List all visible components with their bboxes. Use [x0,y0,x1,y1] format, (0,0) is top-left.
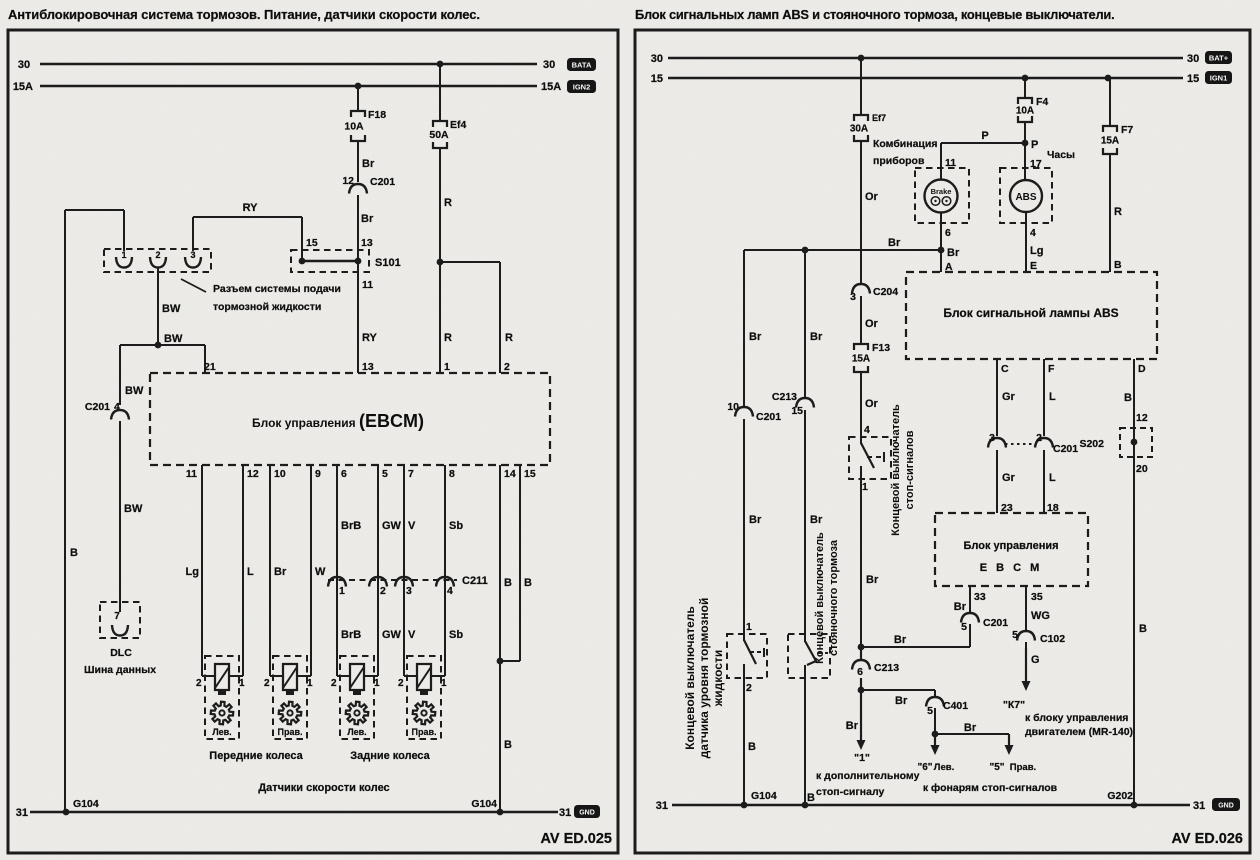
svg-text:C201: C201 [756,411,781,423]
svg-text:Br: Br [810,514,823,526]
svg-text:10: 10 [274,468,286,480]
svg-text:Задние колеса: Задние колеса [350,750,430,762]
svg-text:C: C [1001,363,1009,375]
svg-text:30: 30 [18,59,30,71]
svg-text:4: 4 [447,585,453,597]
svg-text:B: B [504,739,512,751]
svg-text:P: P [1031,139,1038,151]
svg-text:6: 6 [857,666,863,678]
svg-text:G104: G104 [751,790,777,802]
svg-text:7: 7 [114,611,120,622]
svg-text:"6": "6" [917,762,932,773]
svg-text:к фонарям стоп-сигналов: к фонарям стоп-сигналов [923,782,1058,794]
svg-text:"5": "5" [989,762,1004,773]
svg-text:C201: C201 [370,176,395,188]
svg-text:Br: Br [895,695,908,707]
svg-text:C201: C201 [1053,443,1078,455]
svg-text:V: V [408,520,416,532]
svg-text:B: B [807,792,815,804]
svg-text:C213: C213 [772,391,797,403]
svg-text:Блок сигнальной лампы ABS: Блок сигнальной лампы ABS [943,306,1118,320]
svg-text:12: 12 [247,468,259,480]
svg-text:L: L [1049,472,1056,484]
svg-text:WG: WG [1031,610,1050,622]
svg-text:BW: BW [164,333,183,345]
svg-text:F18: F18 [368,109,386,121]
svg-text:Антиблокировочная система торм: Антиблокировочная система тормозов. Пита… [8,7,480,22]
svg-text:Комбинация: Комбинация [873,138,937,150]
svg-text:C401: C401 [943,700,968,712]
svg-text:B: B [1114,259,1122,271]
svg-text:F13: F13 [872,342,890,354]
svg-text:GND: GND [579,810,595,817]
svg-text:двигателем (MR-140): двигателем (MR-140) [1025,726,1133,738]
svg-text:Концевой выключатель: Концевой выключатель [890,404,902,536]
svg-text:Br: Br [894,634,907,646]
svg-text:RY: RY [362,332,378,344]
svg-text:1: 1 [441,678,447,689]
svg-text:ABS: ABS [1015,192,1036,203]
svg-text:BAT+: BAT+ [1209,54,1229,63]
svg-text:RY: RY [243,202,259,214]
svg-text:BrB: BrB [341,629,361,641]
svg-text:30: 30 [543,59,555,71]
svg-text:13: 13 [361,237,373,249]
svg-text:Разъем системы подачи: Разъем системы подачи [213,283,341,295]
svg-text:B: B [524,577,532,589]
svg-text:BATA: BATA [572,61,592,70]
svg-text:4: 4 [864,424,870,436]
svg-text:L: L [1049,391,1056,403]
svg-text:31: 31 [1193,800,1205,812]
svg-text:15A: 15A [1101,136,1119,147]
svg-text:35: 35 [1031,591,1043,603]
svg-text:2: 2 [1036,432,1042,444]
svg-text:1: 1 [307,678,313,689]
svg-text:R: R [444,332,452,344]
svg-text:2: 2 [264,678,270,689]
svg-text:Br: Br [810,331,823,343]
svg-text:8: 8 [449,468,455,480]
svg-text:30A: 30A [850,124,868,135]
svg-text:Br: Br [964,722,977,734]
svg-text:5: 5 [382,468,388,480]
svg-text:GW: GW [382,520,402,532]
svg-text:стояночного тормоза: стояночного тормоза [828,539,840,656]
svg-text:C201: C201 [85,401,110,413]
svg-text:C211: C211 [462,575,488,587]
svg-text:приборов: приборов [873,155,925,167]
svg-text:Ef4: Ef4 [450,119,467,131]
svg-text:Ef7: Ef7 [872,113,886,123]
svg-text:15: 15 [306,237,318,249]
svg-text:F: F [1048,363,1055,375]
svg-text:Лев.: Лев. [347,727,366,737]
svg-text:Br: Br [749,514,762,526]
svg-text:датчика уровня тормозной: датчика уровня тормозной [697,598,711,759]
svg-text:S101: S101 [375,257,401,269]
svg-text:"1": "1" [854,752,870,764]
svg-text:B: B [1139,623,1147,635]
svg-text:20: 20 [1136,463,1148,475]
svg-text:D: D [1138,363,1146,375]
svg-text:Прав.: Прав. [411,727,436,737]
svg-text:15A: 15A [852,354,870,365]
svg-text:Блок сигнальных ламп ABS и сто: Блок сигнальных ламп ABS и стояночного т… [635,7,1114,22]
svg-text:F7: F7 [1121,124,1133,136]
svg-text:15: 15 [651,73,663,85]
svg-text:2: 2 [504,361,510,373]
svg-text:15A: 15A [13,81,33,93]
svg-text:Лев.: Лев. [212,727,231,737]
svg-text:1: 1 [444,361,450,373]
svg-text:6: 6 [945,227,951,239]
svg-text:жидкости: жидкости [711,650,725,707]
svg-text:R: R [444,197,452,209]
svg-text:1: 1 [239,678,245,689]
svg-text:21: 21 [204,361,216,373]
svg-text:Lg: Lg [1030,245,1043,257]
svg-text:Br: Br [846,720,859,732]
svg-text:Or: Or [865,191,879,203]
svg-text:Часы: Часы [1047,149,1075,161]
svg-text:R: R [1114,206,1122,218]
svg-text:Br: Br [954,601,967,613]
svg-text:5: 5 [961,621,967,633]
svg-text:3: 3 [989,432,995,444]
svg-text:Gr: Gr [1002,391,1016,403]
svg-text:P: P [981,130,988,142]
svg-text:31: 31 [559,807,571,819]
svg-text:Блок управления: Блок управления [963,540,1058,552]
svg-text:S202: S202 [1079,438,1104,450]
svg-text:B: B [748,741,756,753]
svg-text:3: 3 [850,291,856,303]
svg-text:2: 2 [398,678,404,689]
svg-text:G: G [1031,654,1040,666]
svg-text:Sb: Sb [449,629,463,641]
svg-text:3: 3 [406,585,412,597]
svg-text:Lg: Lg [186,566,199,578]
svg-text:Прав.: Прав. [277,727,302,737]
svg-text:к блоку управления: к блоку управления [1025,712,1128,724]
svg-text:C213: C213 [874,662,899,674]
svg-text:Brake: Brake [931,187,952,196]
svg-text:Лев.: Лев. [934,762,954,773]
svg-text:12: 12 [1136,412,1148,424]
svg-text:2: 2 [196,678,202,689]
svg-text:Br: Br [866,574,879,586]
svg-text:10A: 10A [1016,106,1034,117]
svg-text:15A: 15A [541,81,561,93]
svg-text:G104: G104 [471,798,497,810]
svg-text:E: E [1030,260,1037,272]
svg-text:Or: Or [865,318,879,330]
svg-text:50A: 50A [429,129,449,141]
svg-text:IGN1: IGN1 [1210,74,1228,83]
svg-text:Передние колеса: Передние колеса [209,750,303,762]
svg-text:C102: C102 [1040,633,1065,645]
svg-text:R: R [505,332,513,344]
svg-text:к дополнительному: к дополнительному [816,770,920,782]
svg-text:F4: F4 [1036,96,1048,108]
svg-text:15: 15 [1187,73,1199,85]
svg-text:стоп-сигналу: стоп-сигналу [816,786,884,798]
svg-text:9: 9 [315,468,321,480]
svg-text:BW: BW [125,385,144,397]
svg-text:31: 31 [656,800,668,812]
svg-text:1: 1 [121,250,126,260]
svg-text:Br: Br [361,213,374,225]
svg-text:30: 30 [1187,53,1199,65]
svg-text:15: 15 [791,405,803,417]
svg-text:AV ED.025: AV ED.025 [541,831,612,847]
svg-text:Шина данных: Шина данных [84,664,156,676]
svg-text:C204: C204 [873,286,898,298]
svg-text:6: 6 [341,468,347,480]
svg-text:GND: GND [1218,803,1234,810]
svg-text:1: 1 [374,678,380,689]
svg-text:Br: Br [274,566,287,578]
svg-text:15: 15 [524,468,536,480]
svg-text:C201: C201 [983,617,1008,629]
svg-text:11: 11 [362,279,373,291]
svg-text:"К7": "К7" [1003,699,1025,711]
svg-text:Gr: Gr [1002,472,1016,484]
svg-text:B: B [504,577,512,589]
svg-text:3: 3 [190,250,195,260]
svg-text:AV ED.026: AV ED.026 [1172,831,1243,847]
svg-text:тормозной жидкости: тормозной жидкости [213,301,321,313]
svg-text:B: B [70,547,78,559]
svg-text:7: 7 [408,468,414,480]
svg-text:5: 5 [927,705,933,717]
svg-text:1: 1 [339,585,345,597]
svg-text:4: 4 [1030,227,1036,239]
svg-text:2: 2 [746,682,752,694]
svg-text:5: 5 [1012,629,1018,641]
svg-text:Концевой выключатель: Концевой выключатель [683,606,697,750]
svg-text:11: 11 [945,157,956,169]
svg-text:Or: Or [865,398,879,410]
svg-text:G104: G104 [73,798,99,810]
svg-text:G202: G202 [1107,790,1133,802]
svg-text:Br: Br [749,331,762,343]
svg-text:BrB: BrB [341,520,361,532]
svg-text:30: 30 [651,53,663,65]
svg-text:B: B [1124,392,1132,404]
svg-text:Датчики скорости колес: Датчики скорости колес [258,782,389,794]
svg-text:2: 2 [380,585,386,597]
svg-text:11: 11 [186,468,197,480]
svg-text:31: 31 [16,807,28,819]
svg-text:DLC: DLC [110,647,132,659]
svg-text:Br: Br [888,237,901,249]
svg-text:10A: 10A [344,121,364,133]
svg-text:2: 2 [331,678,337,689]
svg-text:Br: Br [362,158,375,170]
svg-text:2: 2 [155,250,160,260]
svg-text:GW: GW [382,629,402,641]
svg-text:13: 13 [362,361,374,373]
svg-text:1: 1 [862,481,868,493]
svg-text:Sb: Sb [449,520,463,532]
svg-text:V: V [408,629,416,641]
svg-text:Е В С М: Е В С М [980,562,1043,574]
svg-text:33: 33 [974,591,986,603]
svg-text:Концевой выключатель: Концевой выключатель [814,532,826,664]
svg-text:W: W [315,566,326,578]
svg-text:BW: BW [124,503,143,515]
svg-text:Br: Br [947,247,960,259]
svg-text:L: L [247,566,254,578]
svg-text:14: 14 [504,468,516,480]
svg-text:стоп-сигналов: стоп-сигналов [904,430,916,509]
svg-text:IGN2: IGN2 [573,83,591,92]
svg-text:Прав.: Прав. [1010,762,1036,773]
svg-text:1: 1 [746,621,752,633]
svg-text:BW: BW [162,303,181,315]
